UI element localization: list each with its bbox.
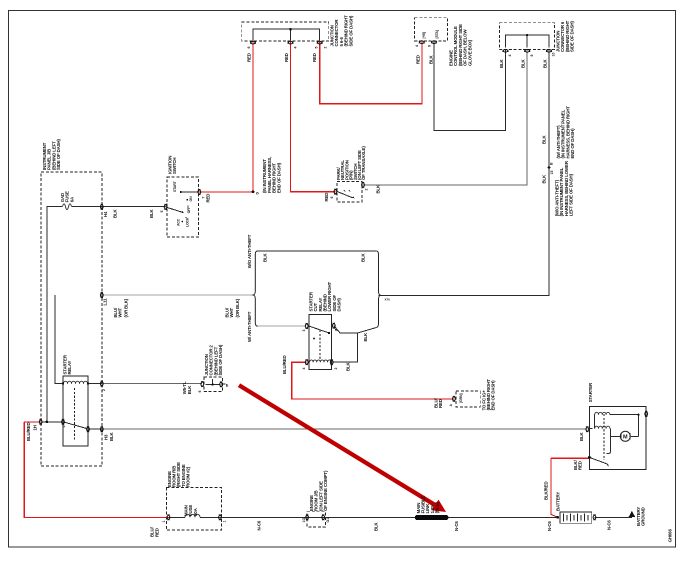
svg-text:9: 9 bbox=[427, 45, 431, 47]
svg-text:2: 2 bbox=[102, 389, 106, 391]
svg-text:W/ ANTI-THEFT: W/ ANTI-THEFT bbox=[247, 311, 252, 342]
svg-text:1G: 1G bbox=[302, 518, 306, 523]
svg-text:BLK: BLK bbox=[374, 521, 379, 531]
svg-text:5: 5 bbox=[160, 211, 164, 213]
svg-text:BLK/RED: BLK/RED bbox=[544, 482, 549, 500]
svg-text:1: 1 bbox=[335, 330, 339, 332]
svg-text:N-C6: N-C6 bbox=[454, 521, 459, 531]
svg-text:START: START bbox=[173, 180, 177, 192]
svg-text:WHT: WHT bbox=[229, 307, 234, 317]
svg-text:RED: RED bbox=[206, 194, 211, 203]
svg-text:3: 3 bbox=[302, 330, 306, 332]
svg-text:SIDE OF DASH): SIDE OF DASH) bbox=[56, 139, 61, 170]
svg-text:X70: X70 bbox=[385, 298, 391, 302]
svg-text:(BLU): (BLU) bbox=[435, 502, 440, 514]
svg-text:GROUND: GROUND bbox=[641, 507, 646, 526]
svg-text:2: 2 bbox=[324, 47, 328, 49]
svg-text:H3: H3 bbox=[104, 434, 109, 440]
svg-text:BLK: BLK bbox=[113, 208, 118, 218]
svg-text:N-C6: N-C6 bbox=[257, 520, 262, 530]
svg-text:6: 6 bbox=[198, 391, 202, 393]
svg-text:[GRN]: [GRN] bbox=[459, 394, 463, 403]
svg-text:GLOVE BOX): GLOVE BOX) bbox=[467, 39, 472, 66]
svg-text:SWITCH: SWITCH bbox=[172, 158, 177, 174]
svg-text:BLK: BLK bbox=[263, 252, 268, 262]
svg-text:1: 1 bbox=[162, 521, 166, 523]
svg-text:BLK: BLK bbox=[346, 361, 351, 371]
svg-text:RED: RED bbox=[284, 53, 289, 62]
svg-text:6: 6 bbox=[530, 55, 534, 57]
svg-text:(OR BLK): (OR BLK) bbox=[124, 298, 129, 317]
svg-text:4: 4 bbox=[508, 55, 512, 57]
svg-text:RED: RED bbox=[324, 193, 329, 202]
svg-text:BLK: BLK bbox=[499, 58, 504, 68]
svg-text:BLK: BLK bbox=[363, 332, 368, 342]
svg-text:1: 1 bbox=[223, 521, 227, 523]
svg-text:LOCK: LOCK bbox=[185, 217, 189, 227]
svg-text:ACC: ACC bbox=[177, 218, 181, 226]
svg-text:E: E bbox=[226, 382, 229, 387]
svg-text:BLK: BLK bbox=[109, 431, 114, 441]
svg-text:4: 4 bbox=[302, 368, 306, 370]
svg-text:BLU/RED: BLU/RED bbox=[282, 356, 287, 374]
svg-text:RED: RED bbox=[415, 55, 420, 64]
svg-text:4: 4 bbox=[415, 45, 419, 47]
svg-text:M: M bbox=[623, 434, 628, 440]
svg-text:BLK: BLK bbox=[542, 134, 547, 144]
svg-text:STARTER: STARTER bbox=[588, 382, 593, 402]
svg-text:RED: RED bbox=[247, 53, 252, 62]
svg-text:5: 5 bbox=[62, 426, 66, 428]
svg-text:BLK: BLK bbox=[429, 54, 434, 64]
svg-text:L11: L11 bbox=[103, 298, 108, 306]
svg-text:6: 6 bbox=[247, 47, 251, 49]
svg-text:END OF DASH): END OF DASH) bbox=[570, 128, 575, 159]
svg-text:[STA]: [STA] bbox=[435, 30, 439, 38]
svg-text:OF ENGINE COMPT): OF ENGINE COMPT) bbox=[323, 470, 328, 511]
svg-text:RED: RED bbox=[577, 461, 582, 470]
svg-text:[+B]: [+B] bbox=[422, 32, 426, 38]
svg-text:N-C6: N-C6 bbox=[547, 521, 552, 531]
svg-text:5: 5 bbox=[315, 47, 319, 49]
svg-text:G1: G1 bbox=[326, 518, 330, 523]
svg-text:6: 6 bbox=[330, 197, 334, 199]
svg-text:SIDE OF DASH): SIDE OF DASH) bbox=[570, 21, 575, 52]
svg-text:RELAY: RELAY bbox=[67, 361, 72, 375]
svg-text:BLK: BLK bbox=[521, 58, 526, 68]
svg-text:7: 7 bbox=[202, 197, 206, 199]
svg-text:10: 10 bbox=[552, 53, 556, 57]
svg-text:30A: 30A bbox=[193, 507, 198, 516]
svg-text:15: 15 bbox=[550, 171, 554, 175]
svg-text:BLK: BLK bbox=[149, 208, 154, 218]
svg-text:RED: RED bbox=[154, 528, 159, 537]
svg-text:BLK: BLK bbox=[187, 385, 192, 395]
svg-text:W/O ANTI-THEFT: W/O ANTI-THEFT bbox=[247, 234, 252, 268]
svg-text:2: 2 bbox=[364, 189, 368, 191]
svg-text:BLK: BLK bbox=[542, 174, 547, 184]
svg-text:SIDE OF DASH): SIDE OF DASH) bbox=[218, 344, 223, 375]
svg-text:N-C6: N-C6 bbox=[607, 520, 612, 530]
svg-text:BLK: BLK bbox=[361, 252, 366, 262]
svg-text:RED: RED bbox=[312, 53, 317, 62]
svg-text:BATTERY: BATTERY bbox=[555, 492, 560, 511]
svg-text:2: 2 bbox=[334, 368, 338, 370]
svg-text:1H: 1H bbox=[33, 425, 38, 430]
svg-text:GH066: GH066 bbox=[668, 529, 673, 543]
svg-text:END OF DASH): END OF DASH) bbox=[276, 162, 281, 193]
svg-text:OF TRANSAXLE): OF TRANSAXLE) bbox=[361, 146, 366, 180]
svg-text:BLK: BLK bbox=[543, 58, 548, 68]
svg-text:RED: RED bbox=[438, 399, 443, 408]
svg-text:WHT: WHT bbox=[118, 307, 123, 317]
svg-text:H4: H4 bbox=[103, 211, 108, 217]
svg-text:SIDE OF DASH): SIDE OF DASH) bbox=[348, 15, 353, 46]
svg-text:OFF: OFF bbox=[187, 206, 191, 214]
svg-text:END OF DASH): END OF DASH) bbox=[491, 380, 496, 411]
svg-text:BLU/RED: BLU/RED bbox=[26, 423, 31, 441]
svg-text:BLK: BLK bbox=[376, 184, 381, 194]
svg-text:BLK: BLK bbox=[579, 431, 584, 441]
svg-text:(OR BLK): (OR BLK) bbox=[235, 298, 240, 317]
svg-text:LEFT SIDE OF DASH): LEFT SIDE OF DASH) bbox=[569, 173, 574, 216]
svg-text:ROOM #2): ROOM #2) bbox=[186, 466, 191, 487]
svg-text:4: 4 bbox=[294, 47, 298, 49]
svg-text:DASH): DASH) bbox=[337, 298, 342, 312]
svg-text:ON: ON bbox=[189, 196, 193, 202]
